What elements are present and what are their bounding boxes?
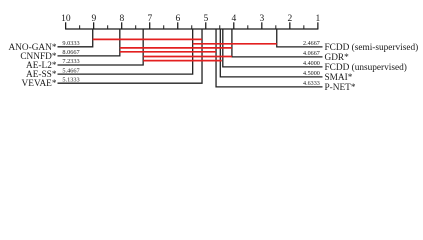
crossbar AE-L2 to SMAI (143, 60, 222, 62)
svg-text:SMAI*: SMAI* (325, 73, 353, 83)
svg-text:VEVAE*: VEVAE* (22, 79, 57, 89)
left method labels (8, 43, 56, 89)
svg-text:1: 1 (316, 14, 321, 24)
svg-text:4.5000: 4.5000 (303, 71, 320, 77)
axis ruler line (65, 28, 318, 30)
svg-text:2: 2 (288, 14, 293, 24)
svg-text:4.6333: 4.6333 (303, 81, 320, 87)
crossbar ANO-GAN to VEVAE (93, 38, 202, 40)
svg-text:5: 5 (204, 14, 209, 24)
svg-text:FCDD (unsupervised): FCDD (unsupervised) (325, 62, 407, 73)
svg-text:8.0667: 8.0667 (62, 49, 79, 56)
right method labels (325, 42, 419, 93)
svg-text:4.0667: 4.0667 (303, 51, 320, 57)
svg-text:6: 6 (176, 14, 181, 24)
svg-text:8: 8 (120, 14, 125, 24)
svg-text:9.0333: 9.0333 (62, 40, 79, 47)
svg-text:5.1333: 5.1333 (62, 76, 79, 83)
red clique crossbars (93, 39, 277, 60)
svg-text:2.4667: 2.4667 (303, 41, 320, 47)
VEVAE elbow (58, 29, 203, 83)
svg-text:7.2333: 7.2333 (62, 58, 79, 65)
FCDD unsupervised elbow (223, 29, 323, 67)
svg-text:5.4667: 5.4667 (62, 67, 79, 74)
ANO-GAN elbow (58, 29, 93, 47)
svg-text:P-NET*: P-NET* (325, 83, 356, 93)
left rank values (62, 40, 79, 83)
CNNFD elbow (58, 29, 120, 56)
FCDD semi-supervised elbow (277, 29, 323, 47)
axis rank numbers (61, 14, 320, 24)
svg-text:4: 4 (232, 14, 237, 24)
method elbow lines (black) (58, 29, 323, 87)
right rank values (303, 41, 320, 87)
svg-text:7: 7 (148, 14, 153, 24)
svg-text:3: 3 (260, 14, 265, 24)
svg-text:9: 9 (92, 14, 97, 24)
AE-SS elbow (58, 29, 193, 74)
svg-text:10: 10 (61, 14, 71, 24)
svg-text:FCDD (semi-supervised): FCDD (semi-supervised) (325, 42, 419, 53)
crossbar AE-L2 to GDR (143, 56, 232, 58)
SMAI elbow (220, 29, 322, 77)
minor ticks at half ranks (80, 25, 304, 29)
P-NET elbow (216, 29, 322, 87)
crossbar AE-SS to FCDD semi (193, 43, 277, 45)
svg-text:GDR*: GDR* (325, 53, 350, 63)
svg-text:4.4000: 4.4000 (303, 61, 320, 67)
GDR elbow (232, 29, 323, 57)
crossbar CNNFD to P-NET (120, 51, 216, 53)
AE-L2 elbow (58, 29, 144, 65)
major ticks 10..1 (66, 22, 318, 29)
crossbar CNNFD to GDR (120, 47, 232, 49)
